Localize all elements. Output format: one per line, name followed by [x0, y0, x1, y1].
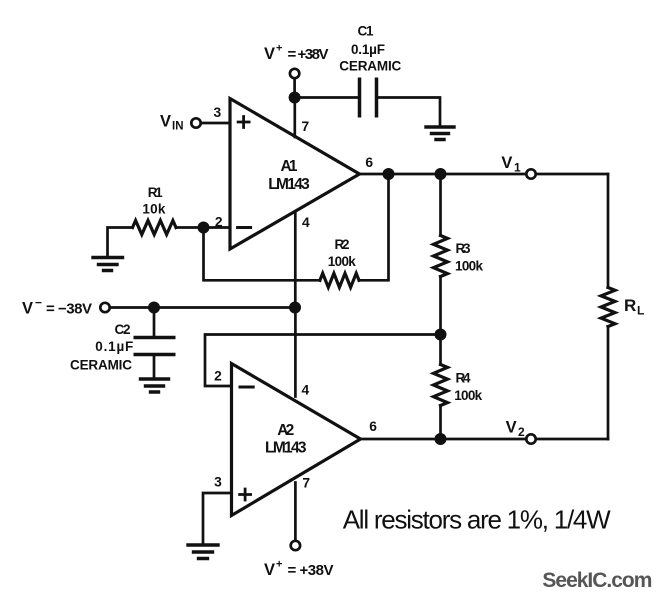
junction V+/pin7/C1 — [289, 92, 301, 104]
svg-text:6: 6 — [369, 419, 377, 434]
wire C2 stub from bus — [153, 308, 156, 338]
svg-text:3: 3 — [214, 105, 222, 120]
svg-text:+: + — [276, 559, 282, 571]
minus symbol inside A1 — [238, 226, 251, 229]
wire right branch down to RL and to V2 line — [607, 174, 610, 439]
wire R4 bottom lead — [439, 406, 442, 440]
svg-text:A2: A2 — [277, 422, 294, 439]
wire C1 to ground corner — [377, 98, 441, 128]
svg-text:3: 3 — [214, 475, 222, 490]
svg-text:R1: R1 — [148, 185, 163, 200]
svg-text:V: V — [160, 113, 171, 131]
label V+ = +38V (top) — [264, 43, 329, 64]
resistor R4 — [434, 365, 448, 406]
svg-text:2: 2 — [215, 215, 223, 230]
svg-text:2: 2 — [214, 369, 222, 384]
svg-text:V: V — [264, 45, 275, 63]
wire R1 right lead to pin 2 of A1 — [176, 226, 230, 229]
capacitor C2 plates — [134, 338, 176, 355]
svg-text:100k: 100k — [455, 259, 483, 274]
svg-text:−: − — [35, 296, 42, 310]
label V+ = +38V (bottom) — [264, 559, 334, 580]
wire pin 4 of A2 up to V- bus — [294, 308, 297, 397]
wire C2 bottom plate to ground — [153, 355, 156, 380]
svg-text:1: 1 — [514, 161, 521, 175]
svg-text:100k: 100k — [328, 254, 356, 269]
ground (C1) — [426, 127, 454, 140]
wire A1 output to right corner — [360, 173, 609, 176]
ground (C2) — [141, 379, 169, 392]
wire A2 output to right corner — [361, 438, 609, 441]
svg-text:LM143: LM143 — [268, 176, 310, 193]
svg-text:R4: R4 — [456, 371, 471, 386]
svg-text:= −38V: = −38V — [46, 301, 92, 318]
wire pin2 junction down and right to R2 — [204, 228, 320, 281]
svg-text:0.1µF: 0.1µF — [351, 42, 385, 57]
terminal V+ top — [290, 69, 299, 78]
svg-text:R2: R2 — [335, 237, 350, 252]
svg-text:LM143: LM143 — [265, 440, 307, 457]
svg-text:V: V — [22, 300, 33, 318]
wire R2 right lead up to A1 output — [359, 174, 389, 280]
svg-text:C2: C2 — [115, 322, 131, 337]
wire R3 top lead — [439, 174, 442, 236]
junction R3/R4 midpoint — [435, 329, 447, 341]
wire pin 7 of A2 down to V+ terminal — [294, 483, 297, 541]
svg-text:7: 7 — [302, 476, 310, 491]
junction V- bus / pin 4 lines — [289, 302, 301, 314]
wire pin 7 of A1 — [293, 98, 296, 138]
minus symbol inside A2 — [240, 386, 253, 389]
wire V- bus — [110, 306, 295, 309]
svg-text:2: 2 — [518, 425, 525, 439]
junction A1 pin 2 / R1 / feedback — [198, 222, 210, 234]
op-amp A2 triangle — [232, 364, 361, 516]
label RL — [624, 296, 644, 318]
svg-text:+: + — [276, 43, 282, 55]
svg-text:4: 4 — [301, 383, 309, 398]
svg-text:CERAMIC: CERAMIC — [339, 59, 401, 74]
wire VIN to pin 3 of A1 — [201, 122, 230, 125]
svg-text:L: L — [637, 304, 644, 318]
wire R3 bottom lead — [439, 277, 442, 335]
svg-text:All resistors are 1%, 1/4W: All resistors are 1%, 1/4W — [343, 505, 611, 535]
terminal V2 — [526, 434, 535, 443]
resistor R1 — [133, 221, 177, 235]
svg-text:100k: 100k — [454, 388, 482, 403]
svg-text:7: 7 — [301, 119, 309, 134]
resistor R3 — [434, 236, 448, 277]
svg-text:V: V — [264, 561, 275, 579]
svg-text:CERAMIC: CERAMIC — [70, 358, 132, 373]
svg-text:= +38V: = +38V — [288, 562, 334, 579]
label V1 — [501, 154, 521, 175]
svg-text:6: 6 — [365, 155, 373, 170]
label V2 — [506, 419, 525, 440]
junction A2 output / R4 bottom — [435, 433, 447, 445]
svg-text:0.1µF: 0.1µF — [95, 339, 133, 354]
terminal V1 — [526, 169, 535, 178]
wire pin 3 of A2 to ground — [203, 493, 232, 545]
op-amp A1 triangle — [230, 99, 360, 250]
wire R1 left lead to ground corner — [108, 228, 133, 258]
svg-text:V: V — [506, 419, 517, 437]
wire V+ terminal to junction — [293, 79, 296, 98]
svg-text:IN: IN — [172, 121, 184, 133]
wire R3/R4 junction to A2 pin 2 — [205, 335, 441, 387]
resistor RL — [601, 288, 615, 327]
plus symbol inside A2 — [240, 489, 251, 500]
svg-text:R: R — [624, 296, 636, 315]
junction V- bus / C2 — [148, 302, 160, 314]
svg-text:R3: R3 — [456, 241, 471, 256]
terminal V- — [100, 303, 109, 312]
wire V+ junction to C1 — [295, 96, 360, 99]
terminal V+ bottom — [291, 541, 300, 550]
plus symbol inside A1 — [238, 117, 249, 128]
svg-text:V: V — [501, 154, 512, 172]
svg-text:4: 4 — [302, 215, 310, 230]
svg-text:SeekIC.com: SeekIC.com — [542, 569, 652, 592]
junction A1 output / R2 feedback — [383, 168, 395, 180]
capacitor C1 plates — [360, 78, 377, 118]
wire R4 top lead — [439, 335, 442, 365]
label VIN — [160, 113, 184, 133]
junction A1 output / R3 top — [435, 168, 447, 180]
svg-text:= +38V: = +38V — [288, 46, 329, 63]
label V- = -38V — [22, 296, 92, 318]
svg-text:10k: 10k — [142, 202, 165, 217]
terminal VIN — [191, 118, 200, 127]
ground (A2 pin 3) — [188, 545, 218, 559]
resistor R2 — [320, 273, 359, 287]
ground (R1) — [93, 258, 123, 271]
svg-text:A1: A1 — [281, 158, 298, 175]
svg-text:C1: C1 — [358, 24, 374, 39]
wire pin 4 of A1 down to V- bus — [294, 212, 297, 308]
